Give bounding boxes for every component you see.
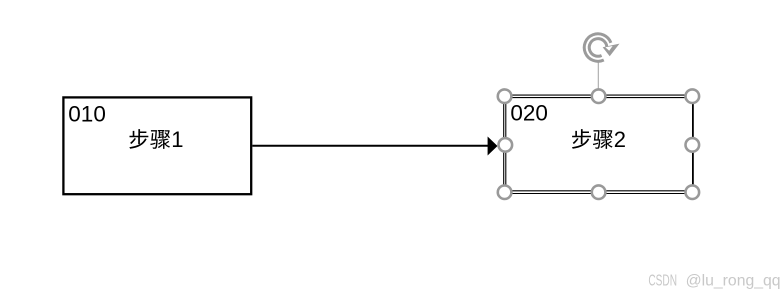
svg-text:2: 2 xyxy=(614,127,626,152)
svg-text:010: 010 xyxy=(68,101,106,126)
svg-text:@lu_rong_qq: @lu_rong_qq xyxy=(686,273,780,290)
svg-text:020: 020 xyxy=(510,101,548,126)
svg-text:CSDN: CSDN xyxy=(648,273,677,290)
svg-text:1: 1 xyxy=(171,127,183,152)
